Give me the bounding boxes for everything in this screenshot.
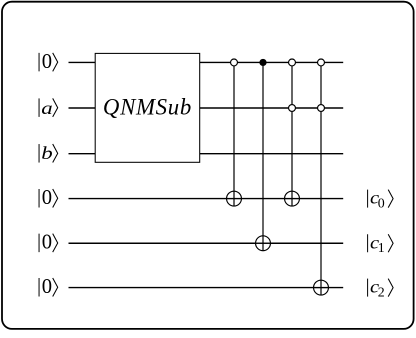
wire q4	[69, 242, 344, 244]
target col1 q3	[226, 191, 242, 207]
target col2 q4	[255, 235, 271, 251]
ket label |c0> q3 output	[368, 189, 394, 211]
wire q3	[69, 198, 344, 200]
ket label |0> q3	[39, 187, 58, 209]
target col4 q5	[313, 280, 329, 296]
svg-text:0: 0	[42, 187, 52, 209]
ket label |a> q1	[39, 98, 58, 118]
vertical control wire col4	[320, 62, 322, 295]
wire q0	[69, 61, 344, 63]
ket label |b> q2	[39, 144, 58, 163]
open control col3 q0	[289, 59, 296, 66]
gate QNMSub	[95, 53, 200, 162]
ket label |0> q4	[39, 232, 58, 254]
ket label |0> q0	[39, 51, 58, 73]
filled control col2 q0	[259, 59, 266, 66]
svg-text:0: 0	[42, 232, 52, 254]
ket label |0> q5	[39, 276, 58, 298]
wire q5	[69, 287, 344, 289]
svg-text:0: 0	[42, 276, 52, 298]
svg-text:0: 0	[42, 51, 52, 73]
ket label |c2> q5 output	[368, 278, 394, 300]
open control col1 q0	[231, 59, 238, 66]
svg-text:a: a	[41, 99, 52, 118]
open control col4 q0	[318, 59, 325, 66]
ket label |c1> q4 output	[368, 234, 394, 256]
svg-text:1: 1	[378, 241, 385, 256]
wire q2	[69, 153, 344, 155]
svg-text:b: b	[41, 144, 52, 163]
svg-text:QNMSub: QNMSub	[103, 95, 192, 120]
svg-text:0: 0	[378, 196, 385, 211]
vertical control wire col1	[233, 62, 235, 206]
wire q1	[69, 107, 344, 109]
target col3 q3	[284, 191, 300, 207]
vertical control wire col3	[291, 62, 293, 206]
vertical control wire col2	[262, 62, 264, 250]
open control col3 q1	[289, 105, 296, 112]
open control col4 q1	[318, 105, 325, 112]
svg-text:2: 2	[378, 285, 385, 300]
